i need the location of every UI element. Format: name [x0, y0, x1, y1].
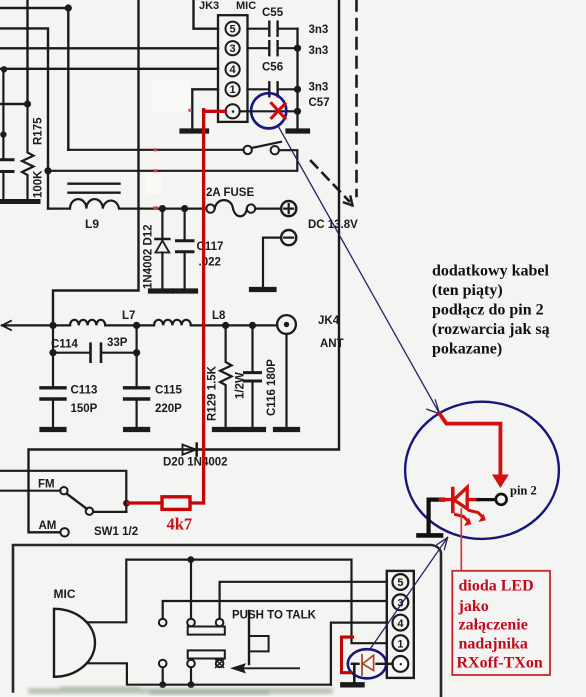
svg-text:1N4002 D12: 1N4002 D12	[143, 224, 155, 289]
marker blue circle (rozwarcie)	[251, 93, 286, 128]
node junction (126.7,503.2)	[123, 500, 130, 507]
dashed diagonal arrow toward DC	[311, 161, 349, 201]
wire mic bottom to rail	[87, 663, 331, 684]
arrow pointing to contact	[234, 667, 299, 669]
node junction (53,325.4)	[49, 322, 56, 329]
switch S1 upper line	[68, 149, 243, 151]
svg-text:RXoff-TXon: RXoff-TXon	[457, 655, 543, 672]
wire vertical x=27.5 from top	[26, 0, 28, 104]
capacitor C115 220P	[136, 353, 138, 386]
connector JK3 box	[218, 15, 248, 122]
node junction bus-pin1	[294, 86, 301, 93]
marker red X	[272, 103, 285, 118]
switch SW1 FM wire	[0, 490, 60, 492]
wire pin3 feed y=48.3	[0, 47, 218, 49]
node junction bus-blank	[294, 108, 301, 115]
svg-text:C113: C113	[71, 385, 98, 397]
node junction (136.6,352.7)	[133, 349, 140, 356]
svg-text:nadajnika: nadajnika	[459, 636, 528, 653]
connector JK3 pin 4	[226, 62, 240, 76]
wire right rail x=339 and bottom rail to D20 line	[29, 0, 340, 532]
svg-text:5: 5	[397, 577, 403, 589]
connector pin 3 (bottom)	[393, 594, 409, 610]
red modified wire from JK3 blank pin	[191, 110, 226, 503]
switch SW1 common contact	[86, 508, 93, 515]
ground under D12	[151, 288, 172, 293]
capacitor C55 on pin5 line	[248, 28, 298, 30]
dashed vertical line	[355, 0, 358, 196]
inductor L8	[154, 320, 191, 326]
capacitor C56 on pin3 line	[248, 47, 298, 49]
switch SW1 AM contact	[60, 528, 68, 536]
big blue ellipse (magnifier)	[405, 402, 559, 539]
svg-text:C55: C55	[262, 7, 284, 19]
microphone MIC symbol	[54, 609, 95, 677]
LED emission arrow 2	[470, 511, 484, 518]
wire riser upper-switch left to pin1 line	[190, 560, 192, 619]
fuse line y=208.6	[155, 208, 281, 210]
blue callout line 1 from marker to ellipse	[278, 125, 440, 414]
red cable path inside ellipse	[440, 414, 500, 475]
svg-text:4: 4	[230, 64, 237, 76]
LED diode symbol (small)	[361, 655, 363, 675]
ground under R175	[17, 199, 38, 204]
ground under C117	[175, 288, 196, 293]
svg-text:3n3: 3n3	[309, 45, 329, 57]
svg-text:100K: 100K	[33, 170, 45, 198]
svg-text:dodatkowy kabel: dodatkowy kabel	[432, 263, 549, 280]
svg-text:.022: .022	[199, 257, 221, 269]
ground bar under LED	[343, 682, 362, 687]
wire riser and top edge y=470.8	[0, 471, 126, 512]
LED emission arrow 1	[456, 515, 469, 522]
svg-text:4k7: 4k7	[167, 515, 193, 534]
svg-text:(rozwarcia jak są: (rozwarcia jak są	[432, 321, 550, 338]
red retouch dot near JK3	[188, 109, 191, 112]
node junction (53,352.7)	[49, 349, 56, 356]
wire between L7 and L8	[106, 324, 154, 326]
fuse 2A symbol	[206, 204, 214, 212]
svg-text:R129 1.5K: R129 1.5K	[207, 365, 219, 421]
svg-text:220P: 220P	[155, 403, 182, 415]
wire L7/L8 line with left arrow	[2, 321, 11, 330]
ground under C115	[126, 427, 148, 432]
LED (big) red lead left	[440, 498, 451, 501]
node junction bus-pin3	[294, 45, 301, 52]
ground under C113	[42, 427, 64, 432]
svg-text:pin 2: pin 2	[510, 484, 537, 498]
terminal DC plus	[281, 201, 296, 216]
svg-text:JK3: JK3	[199, 0, 219, 12]
wire capacitor bus x=297.5	[296, 29, 298, 129]
wire vertical x=68.3 down to switch line	[67, 8, 69, 150]
mark x on lower-right contact	[216, 660, 224, 668]
wire left-edge branch x=3.4	[2, 69, 4, 158]
red arrowhead to pin 2	[492, 475, 509, 489]
ground under capacitor bus	[288, 128, 308, 133]
connector pin blank (bottom)	[393, 656, 409, 672]
red retouch dot (149.8)	[154, 148, 157, 151]
svg-text:L9: L9	[85, 217, 99, 231]
capacitor C117	[184, 209, 186, 239]
red annotation box	[452, 571, 550, 675]
contact circle lower-left with stem	[159, 660, 167, 668]
capacitor C116 180P	[251, 325, 253, 370]
svg-text:4: 4	[397, 618, 404, 630]
wire minus terminal to ground	[263, 238, 281, 287]
connector JK3 pin 1	[226, 82, 240, 96]
connector pin 5 (bottom)	[393, 574, 409, 590]
svg-text:150P: 150P	[71, 403, 98, 415]
wire stem lower-switch left to rail	[190, 667, 192, 684]
wire vertical x=138.5 with corner to L7 line	[53, 0, 139, 325]
wire pin1 to ground	[192, 89, 218, 128]
wire mic top to pin1	[87, 560, 393, 644]
svg-text:C117: C117	[197, 241, 224, 253]
svg-text:1: 1	[230, 84, 236, 96]
diode D20 1N4002 on bottom rail	[183, 445, 197, 455]
svg-text:R175: R175	[33, 117, 45, 145]
svg-text:3n3: 3n3	[309, 24, 329, 36]
svg-text:ANT: ANT	[320, 338, 344, 350]
svg-text:AM: AM	[39, 520, 57, 532]
diode D12 1N4002	[161, 209, 163, 238]
svg-text:MIC: MIC	[236, 0, 256, 12]
terminal DC minus	[281, 230, 296, 245]
svg-text:L8: L8	[212, 310, 226, 322]
wire pin4 branch	[331, 623, 393, 685]
node junction at (3.4,134.5)	[0, 131, 6, 137]
inductor L7	[70, 320, 105, 326]
svg-text:załączenie: załączenie	[459, 617, 528, 634]
svg-text:pokazane): pokazane)	[432, 341, 502, 358]
ground under minus terminal	[252, 287, 275, 292]
push button symbol	[248, 611, 250, 664]
wire top rail y=8	[0, 7, 68, 9]
switch SW1 FM contact	[60, 487, 67, 494]
svg-text:D20 1N4002: D20 1N4002	[163, 457, 228, 469]
svg-text:jako: jako	[458, 598, 489, 615]
node junction at (48,170.8)	[44, 167, 51, 174]
ground under C116	[242, 427, 264, 432]
LED ground stem	[353, 664, 356, 683]
svg-text:SW1 1/2: SW1 1/2	[94, 526, 138, 538]
svg-text:C56: C56	[262, 62, 283, 74]
bottom microphone box	[13, 545, 441, 697]
LED (big) black ground wire	[429, 500, 443, 534]
inductor L9 coil	[48, 199, 155, 209]
svg-text:C57: C57	[309, 97, 330, 109]
ground under JK3 pin1	[182, 128, 207, 133]
node junction at (68,8)	[65, 4, 72, 11]
node junction (184.6,208.6)	[181, 205, 188, 212]
svg-text:1/2W: 1/2W	[235, 372, 247, 399]
LED leads black (small)	[352, 663, 393, 665]
connector JK bottom box	[387, 571, 414, 678]
node junction (225.6,325.4)	[222, 322, 229, 329]
svg-text:33P: 33P	[107, 337, 128, 349]
node junction (190.8,559.6)	[187, 556, 194, 563]
svg-text:5: 5	[230, 24, 236, 36]
capacitor C114 33P horizontal	[53, 325, 137, 354]
node junction (136.6,325.4)	[133, 322, 140, 329]
switch SW1 lever	[67, 494, 87, 509]
svg-text:PUSH TO TALK: PUSH TO TALK	[232, 610, 317, 622]
LED (big) triangle	[454, 487, 467, 509]
node junction at (4,69)	[1, 66, 7, 72]
svg-text:dioda LED: dioda LED	[459, 578, 534, 595]
red retouch dot (170.8)	[154, 169, 157, 172]
wire riser upper-switch right to pin5 line	[220, 582, 393, 619]
red retouch dot (208.6)	[153, 206, 157, 210]
wire from switch right down and back left y=170.8	[48, 150, 297, 171]
svg-text:podłącz do pin 2: podłącz do pin 2	[432, 302, 544, 319]
resistor 4k7 (red)	[162, 497, 190, 510]
wire y=104	[0, 103, 28, 105]
node junction (162.7,684.7)	[159, 681, 166, 688]
capacitor C57 on pin1 line	[248, 88, 298, 90]
connector pin 1 (bottom)	[393, 635, 409, 651]
small blue ellipse around LED	[348, 649, 386, 678]
svg-text:C115: C115	[155, 385, 182, 397]
wire blank pin stub through marker	[240, 110, 298, 112]
svg-text:(ten piąty): (ten piąty)	[432, 282, 503, 299]
wire common to riser x=126.3	[93, 511, 126, 513]
svg-text:C116 180P: C116 180P	[266, 359, 278, 416]
connector JK3 pin 5	[226, 22, 240, 36]
red lead 4k7 to switch node	[128, 501, 162, 504]
smudge bottom edge	[28, 686, 333, 695]
ground bar in ellipse	[419, 533, 442, 538]
svg-text:3: 3	[230, 43, 236, 55]
node junction (162.4,208.6)	[159, 205, 166, 212]
contact circle upper-left	[159, 619, 167, 627]
node junction at (27.5,104)	[24, 100, 31, 107]
wire L8 to JK4	[191, 324, 277, 326]
svg-text:JK4: JK4	[318, 315, 340, 327]
switch S1 lever	[252, 142, 282, 148]
svg-text:2A FUSE: 2A FUSE	[206, 187, 254, 199]
svg-text:FM: FM	[38, 479, 55, 491]
connector JK3 pin 3	[226, 41, 240, 55]
ground under R129	[215, 427, 237, 432]
wire pin4 feed y=68.8	[0, 68, 218, 70]
blue callout line 2 from ellipse to LED	[371, 537, 448, 648]
ground under JK4	[276, 427, 298, 432]
switch S1 contact circles	[244, 146, 252, 154]
node junction (191,684.7)	[188, 681, 195, 688]
resistor R129 1.5K 1/2W	[220, 325, 232, 426]
switch PTT upper bar	[188, 627, 225, 635]
switch PTT lower bar	[188, 650, 225, 658]
LED (big) red stub right	[467, 498, 478, 501]
pin 2 terminal circle	[496, 494, 507, 505]
svg-text:1: 1	[397, 638, 403, 650]
capacitor C113 150P	[52, 353, 54, 386]
black lead to pin2 circle	[478, 498, 495, 501]
node junction (252.5,325.4)	[249, 322, 256, 329]
svg-text:3n3: 3n3	[309, 82, 329, 94]
red leader line LED to text box	[460, 509, 462, 571]
connector JK3 pin blank	[226, 104, 240, 118]
wire left contact riser to pin3	[163, 601, 393, 619]
wire y=28.4 with corner down at x=48	[0, 28, 48, 208]
svg-text:C114: C114	[51, 339, 78, 351]
connector JK4 ANT	[277, 315, 296, 334]
svg-text:L7: L7	[122, 310, 135, 322]
capacitor left-edge (cut off)	[0, 160, 13, 172]
svg-text:MIC: MIC	[54, 587, 76, 601]
LED (big) cathode bar	[451, 489, 455, 512]
inductor L9 core lines	[69, 184, 120, 193]
connector pin 4 (bottom)	[393, 615, 409, 631]
resistor R175 100K vertical	[22, 104, 34, 199]
red jumper bracket pin1-LED	[342, 637, 353, 673]
wire JK3 pin5 feed from top	[194, 0, 219, 29]
ground under left capacitor	[0, 199, 13, 204]
